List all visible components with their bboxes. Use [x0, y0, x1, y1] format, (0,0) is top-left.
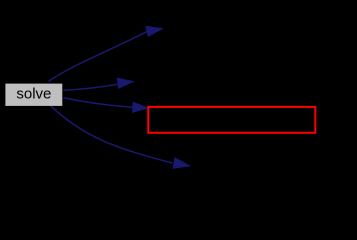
- node solve (grey box): [5, 84, 62, 106]
- wire edge4 solve->bottom callee: [51, 106, 173, 163]
- node highlighted red box: [148, 107, 315, 133]
- wire edge2 solve->second callee: [63, 84, 118, 90]
- arrowhead edge2: [117, 78, 133, 88]
- arrowhead edge3: [133, 102, 148, 112]
- arrowhead edge4: [173, 158, 189, 168]
- wire edge3 solve->red node: [63, 98, 133, 108]
- svg-text:solve: solve: [16, 86, 51, 103]
- call graph: [0, 0, 357, 189]
- arrowhead edge1: [146, 26, 162, 36]
- wire edge1 solve->top callee: [49, 32, 148, 82]
